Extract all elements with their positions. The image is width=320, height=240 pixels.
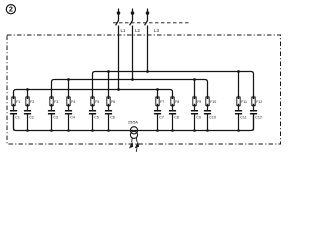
svg-text:C1: C1: [15, 116, 20, 120]
bus phase L1 feeding branches 1 2 7 8: [14, 90, 173, 97]
fuse F7: [156, 96, 165, 107]
svg-text:C2: C2: [29, 116, 34, 120]
junction: [237, 129, 240, 132]
capacitor C4: [65, 111, 75, 120]
supply terminal L3: [146, 11, 150, 15]
disconnect switch pole L1: [116, 21, 119, 26]
wire branch 4 drop: [68, 80, 70, 97]
fuse F9: [193, 96, 202, 107]
junction: [107, 70, 110, 73]
junction: [171, 129, 174, 132]
junction: [67, 78, 70, 81]
wire branch 6 drop: [108, 72, 110, 97]
svg-text:F8: F8: [175, 100, 179, 104]
wire CT secondary lead b: [135, 138, 138, 142]
wire capacitor C7 to neutral bus: [157, 114, 159, 131]
switch linkage dashed line: [113, 22, 190, 24]
wire branch 11 drop: [238, 72, 240, 97]
junction: [193, 129, 196, 132]
wire capacitor C6 to neutral bus: [108, 114, 110, 131]
junction: [156, 129, 159, 132]
wire fuse F7 to capacitor C7: [157, 106, 159, 111]
svg-text:C9: C9: [196, 116, 201, 120]
junction: [156, 88, 159, 91]
svg-text:L3: L3: [154, 28, 159, 33]
wire fuse F5 to capacitor C5: [92, 106, 94, 111]
wire: [118, 9, 120, 21]
capacitor C2: [24, 111, 34, 120]
svg-text:F2: F2: [30, 100, 34, 104]
wire phase L1 drop: [118, 26, 120, 90]
fuse F5: [91, 96, 100, 107]
capacitor C5: [89, 111, 99, 120]
wire fuse F2 to capacitor C2: [27, 106, 29, 111]
fuse F12: [252, 96, 263, 107]
junction: [193, 78, 196, 81]
svg-text:C7: C7: [159, 116, 164, 120]
fuse F2: [26, 96, 35, 107]
svg-text:C12: C12: [255, 116, 262, 120]
fuse F3: [50, 96, 59, 107]
svg-text:C5: C5: [94, 116, 99, 120]
wire branch 7 drop: [157, 90, 159, 97]
fuse F1: [12, 96, 21, 107]
fuse F10: [206, 96, 217, 107]
junction: [26, 129, 29, 132]
fuse F11: [237, 96, 247, 107]
wire fuse F8 to capacitor C8: [172, 106, 174, 111]
svg-text:C3: C3: [53, 116, 58, 120]
svg-text:F7: F7: [160, 100, 164, 104]
wire fuse F4 to capacitor C4: [68, 106, 70, 111]
wire capacitor C12 to neutral bus: [253, 114, 255, 131]
wire fuse F6 to capacitor C6: [108, 106, 110, 111]
wire fuse F12 to capacitor C12: [253, 106, 255, 111]
svg-text:F1: F1: [16, 100, 20, 104]
wire branch 9 drop: [194, 80, 196, 97]
svg-text:C8: C8: [174, 116, 179, 120]
fuse F6: [107, 96, 116, 107]
current transformer 25/5A: [128, 121, 139, 152]
wire capacitor C11 to neutral bus: [238, 114, 240, 131]
junction: [131, 78, 134, 81]
wire capacitor C9 to neutral bus: [194, 114, 196, 131]
wire fuse F9 to capacitor C9: [194, 106, 196, 111]
svg-text:F3: F3: [54, 100, 58, 104]
supply terminal L2: [131, 11, 135, 15]
capacitor C12: [250, 111, 262, 120]
svg-text:C6: C6: [110, 116, 115, 120]
svg-text:C11: C11: [240, 116, 246, 120]
arrowhead a: [129, 141, 133, 148]
fuse F8: [171, 96, 180, 107]
capacitor C9: [191, 111, 201, 120]
capacitor C1: [10, 111, 20, 120]
disconnect switch pole L2: [130, 21, 133, 26]
neutral bottom bus: [14, 114, 254, 131]
wire fuse F1 to capacitor C1: [13, 106, 15, 111]
svg-text:F6: F6: [111, 100, 115, 104]
disconnect switch pole L3: [145, 21, 148, 26]
junction: [91, 129, 94, 132]
junction: [237, 70, 240, 73]
svg-text:2: 2: [9, 5, 13, 14]
wire fuse F11 to capacitor C11: [238, 106, 240, 111]
wire: [147, 9, 149, 21]
wire: [132, 9, 134, 21]
wire capacitor C1 to neutral bus: [13, 114, 15, 131]
capacitor C8: [169, 111, 179, 120]
enclosure dash-dot border: [7, 35, 281, 144]
figure number badge 2: [6, 5, 15, 14]
capacitor C7: [154, 111, 164, 120]
svg-text:25/5A: 25/5A: [128, 121, 138, 125]
wire capacitor C8 to neutral bus: [172, 114, 174, 131]
wire capacitor C2 to neutral bus: [27, 114, 29, 131]
wire phase L3 drop: [147, 26, 149, 72]
wire capacitor C3 to neutral bus: [51, 114, 53, 131]
wire CT secondary lead a: [131, 138, 134, 142]
junction: [26, 88, 29, 91]
svg-text:F5: F5: [95, 100, 99, 104]
capacitor C6: [105, 111, 115, 120]
junction: [67, 129, 70, 132]
junction: [50, 129, 53, 132]
capacitor C3: [48, 111, 58, 120]
bus phase L2 feeding branches 3 4 9 10: [52, 80, 208, 97]
wire capacitor C4 to neutral bus: [68, 114, 70, 131]
capacitor C11: [235, 111, 247, 120]
junction: [206, 129, 209, 132]
svg-text:F11: F11: [241, 100, 247, 104]
wire branch 2 drop: [27, 90, 29, 97]
junction: [117, 88, 120, 91]
svg-text:F10: F10: [210, 100, 216, 104]
svg-text:F12: F12: [256, 100, 262, 104]
svg-text:C10: C10: [209, 116, 216, 120]
bus phase L3 feeding branches 5 6 11 12: [93, 72, 254, 97]
svg-text:F9: F9: [197, 100, 201, 104]
svg-text:F4: F4: [71, 100, 75, 104]
svg-text:L1: L1: [121, 28, 126, 33]
fuse F4: [67, 96, 76, 107]
wire capacitor C10 to neutral bus: [207, 114, 209, 131]
svg-text:C4: C4: [70, 116, 75, 120]
wire fuse F3 to capacitor C3: [51, 106, 53, 111]
supply terminal L1: [117, 11, 121, 15]
wire fuse F10 to capacitor C10: [207, 106, 209, 111]
svg-text:L2: L2: [135, 28, 140, 33]
junction: [146, 70, 149, 73]
arrowhead b: [135, 141, 139, 148]
capacitor C10: [204, 111, 216, 120]
junction: [107, 129, 110, 132]
wire CT secondary tail: [135, 148, 138, 152]
wire phase L2 drop: [132, 26, 134, 80]
wire capacitor C5 to neutral bus: [92, 114, 94, 131]
